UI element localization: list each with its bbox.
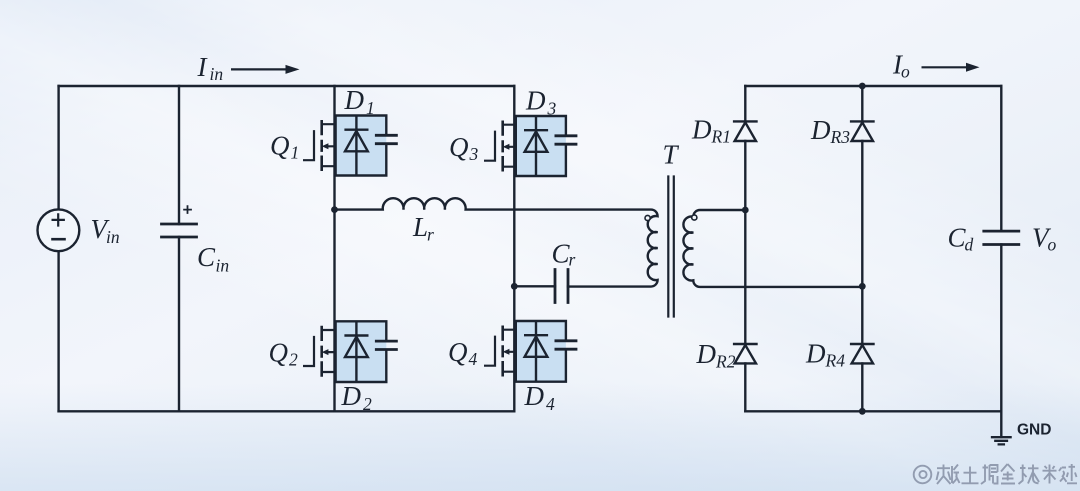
voltage source V_in circle xyxy=(38,209,80,251)
node dot: bottom rail DR4 junction xyxy=(859,408,866,415)
cell Q4 box border with capacitor gap xyxy=(516,321,566,382)
svg-text:in: in xyxy=(210,64,224,84)
MOSFET Q2 body arrow xyxy=(322,349,329,355)
wire: secondary bottom rail xyxy=(745,410,1001,412)
MOSFET Q3 drain/body/source stubs xyxy=(503,125,515,167)
cell Q1 box border with capacitor gap xyxy=(336,116,387,176)
switch cell Q1 box fill xyxy=(336,116,387,176)
svg-text:D: D xyxy=(691,114,712,144)
rectifier branch DR1/DR2 vertical xyxy=(744,86,746,411)
wire: left source branch upper xyxy=(57,86,59,210)
svg-text:D: D xyxy=(525,86,546,116)
MOSFET Q2 drain/body/source stubs xyxy=(322,330,335,372)
wire: C_r to leg B xyxy=(514,285,555,287)
MOSFET Q2 gate xyxy=(303,336,314,366)
svg-text:D: D xyxy=(696,339,717,369)
svg-text:D: D xyxy=(341,381,362,411)
node dot: secondary top to DR1 branch xyxy=(742,207,749,214)
arrow I_o xyxy=(922,66,967,68)
diode DR3 xyxy=(851,121,873,141)
MOSFET Q4 with body diode D4 cell xyxy=(484,321,577,382)
inductor L_r and wire to transformer primary top xyxy=(335,198,658,286)
diode DR2 xyxy=(734,344,756,363)
svg-text:4: 4 xyxy=(469,349,478,369)
svg-text:D: D xyxy=(344,85,365,115)
MOSFET Q4 gate xyxy=(484,336,495,366)
svg-text:R4: R4 xyxy=(825,351,846,371)
body diode D1 cathode bar xyxy=(344,128,368,130)
MOSFET Q1 drain/body/source stubs xyxy=(322,124,335,166)
capacitor C_in plates xyxy=(162,224,197,237)
svg-text:Q: Q xyxy=(449,132,469,162)
transformer primary phase dot xyxy=(645,215,650,220)
svg-text:D: D xyxy=(810,115,831,145)
svg-text:Q: Q xyxy=(448,337,468,367)
svg-text:Q: Q xyxy=(270,131,290,161)
body diode D3 cathode bar xyxy=(524,129,548,131)
svg-text:R2: R2 xyxy=(715,351,736,371)
svg-text:o: o xyxy=(901,62,910,82)
diode DR4 xyxy=(851,344,873,363)
cell Q2 box border with capacitor gap xyxy=(336,321,387,382)
node dot: leg B midpoint xyxy=(511,283,518,290)
body diode D1 cathode line xyxy=(355,116,357,176)
wire: ground stem xyxy=(1000,411,1002,437)
body diode D3 cathode line xyxy=(535,116,537,176)
MOSFET Q4 channel dashes xyxy=(501,326,504,377)
wire: primary bottom rail xyxy=(59,410,515,412)
watermark xyxy=(914,464,1077,484)
MOSFET Q3 with body diode D3 cell xyxy=(484,116,577,176)
V_in plus sign xyxy=(53,214,64,225)
wire: secondary top rail xyxy=(745,85,1001,87)
wire: primary top rail xyxy=(59,85,515,87)
body diode D2 cathode bar xyxy=(344,334,368,336)
switch cell Q2 box fill xyxy=(336,321,387,382)
rectifier branch DR3/DR4 vertical xyxy=(861,86,863,411)
node dot: secondary bottom to DR4 branch xyxy=(859,283,866,290)
MOSFET Q3 channel dashes xyxy=(501,121,504,172)
svg-text:R3: R3 xyxy=(830,127,851,147)
capacitor C_d plates xyxy=(984,231,1019,244)
svg-text:in: in xyxy=(106,227,120,247)
wire: bridge leg B xyxy=(513,86,515,411)
output capacitance plates of Q3 xyxy=(555,136,578,144)
output capacitance plates of Q1 xyxy=(375,135,398,143)
wire: bridge leg A xyxy=(333,86,335,411)
MOSFET Q1 body arrow xyxy=(322,143,329,149)
MOSFET Q4 drain/body/source stubs xyxy=(503,330,515,372)
wire: C_in branch lower xyxy=(178,237,180,411)
output capacitance plates of Q4 xyxy=(555,341,578,349)
MOSFET Q1 gate xyxy=(303,130,314,160)
MOSFET Q2 channel dashes xyxy=(320,326,323,377)
svg-text:d: d xyxy=(965,235,974,255)
MOSFET Q4 body arrow xyxy=(503,349,510,355)
svg-text:D: D xyxy=(805,339,826,369)
capacitor C_r plates xyxy=(555,270,568,303)
body diode D1 triangle xyxy=(345,131,368,151)
body diode D4 triangle xyxy=(525,336,548,356)
MOSFET Q3 body arrow xyxy=(503,144,510,150)
MOSFET Q2 with body diode D2 cell xyxy=(303,321,398,382)
transformer core lines xyxy=(668,177,674,317)
svg-text:r: r xyxy=(569,250,576,270)
svg-text:3: 3 xyxy=(547,99,557,119)
body diode D4 cathode line xyxy=(535,321,537,382)
body diode D4 cathode bar xyxy=(524,334,548,336)
svg-text:2: 2 xyxy=(289,350,298,370)
MOSFET Q3 gate xyxy=(484,131,495,161)
transformer secondary winding xyxy=(683,210,862,287)
switch cell Q3 box fill xyxy=(516,116,566,176)
svg-text:D: D xyxy=(524,381,545,411)
output capacitance plates of Q2 xyxy=(375,341,398,349)
svg-text:r: r xyxy=(427,225,434,245)
switch cell Q4 box fill xyxy=(516,321,566,382)
body diode D2 cathode line xyxy=(355,321,357,382)
svg-text:R1: R1 xyxy=(711,127,731,147)
V_in minus sign xyxy=(53,238,65,241)
svg-text:T: T xyxy=(663,140,680,170)
svg-text:1: 1 xyxy=(366,98,375,118)
node dot: leg A midpoint xyxy=(331,206,338,213)
svg-text:GND: GND xyxy=(1017,422,1051,439)
wire: output branch upper xyxy=(1000,86,1002,231)
MOSFET Q1 channel dashes xyxy=(320,120,323,171)
cell Q3 box border with capacitor gap xyxy=(516,116,566,176)
body diode D3 triangle xyxy=(525,131,548,151)
body diode D2 triangle xyxy=(345,337,368,357)
svg-text:C: C xyxy=(197,242,216,272)
node dot: top rail DR3 junction xyxy=(859,83,866,90)
C_in polarity plus xyxy=(184,206,191,213)
MOSFET Q1 with body diode D1 cell xyxy=(303,116,398,176)
svg-text:1: 1 xyxy=(291,143,300,163)
wire: left source branch lower xyxy=(57,251,59,411)
svg-text:Q: Q xyxy=(269,338,289,368)
svg-text:in: in xyxy=(216,256,230,276)
transformer secondary phase dot xyxy=(692,215,697,220)
arrow I_in xyxy=(231,68,286,70)
svg-text:L: L xyxy=(412,212,428,242)
svg-text:3: 3 xyxy=(469,144,479,164)
ground symbol xyxy=(992,437,1011,444)
diode DR1 xyxy=(734,121,756,141)
wire: output branch lower xyxy=(1000,245,1002,412)
svg-text:2: 2 xyxy=(363,394,372,414)
svg-text:o: o xyxy=(1048,235,1057,255)
wire: C_in branch upper xyxy=(178,86,180,224)
svg-text:4: 4 xyxy=(546,394,555,414)
